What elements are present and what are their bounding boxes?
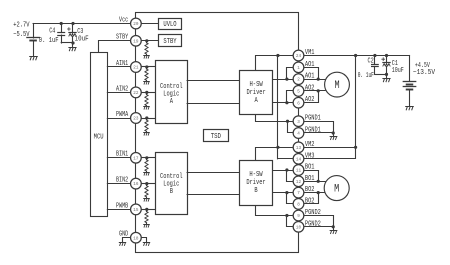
svg-text:BO2: BO2 — [305, 197, 315, 205]
svg-text:AIN2: AIN2 — [116, 85, 128, 93]
svg-text:M: M — [334, 80, 339, 92]
svg-text:BO2: BO2 — [305, 186, 315, 194]
svg-text:BIN2: BIN2 — [116, 177, 128, 185]
svg-text:+2.7V: +2.7V — [13, 22, 30, 30]
svg-text:0. 1uF: 0. 1uF — [358, 72, 374, 80]
svg-text:VM1: VM1 — [305, 49, 315, 57]
svg-text:BIN1: BIN1 — [116, 151, 129, 159]
svg-text:23: 23 — [133, 116, 138, 122]
svg-text:AO1: AO1 — [305, 73, 315, 81]
svg-text:13: 13 — [296, 145, 301, 151]
svg-text:21: 21 — [133, 65, 138, 71]
svg-text:STBY: STBY — [163, 38, 177, 46]
svg-text:BO1: BO1 — [305, 164, 315, 172]
svg-text:UVLO: UVLO — [163, 21, 177, 29]
svg-text:PGND1: PGND1 — [305, 127, 321, 135]
svg-text:9: 9 — [297, 213, 300, 219]
svg-text:16: 16 — [133, 181, 138, 187]
svg-text:STBY: STBY — [116, 34, 129, 42]
svg-text:~5.5V: ~5.5V — [13, 31, 30, 39]
svg-text:B: B — [170, 188, 174, 196]
svg-text:AO2: AO2 — [305, 84, 315, 92]
svg-text:H-SW: H-SW — [250, 81, 264, 89]
svg-text:PGND2: PGND2 — [305, 220, 321, 228]
svg-text:19: 19 — [133, 38, 138, 44]
svg-text:5: 5 — [297, 89, 300, 95]
svg-text:M: M — [334, 184, 339, 196]
svg-text:C2: C2 — [368, 58, 374, 66]
svg-text:AIN1: AIN1 — [116, 60, 129, 68]
svg-text:2: 2 — [297, 77, 300, 83]
svg-text:10uF: 10uF — [392, 67, 404, 75]
svg-text:PGND1: PGND1 — [305, 115, 321, 123]
svg-text:8: 8 — [297, 202, 300, 208]
svg-text:H-SW: H-SW — [249, 171, 263, 179]
svg-text:12: 12 — [296, 179, 301, 185]
svg-text:VM3: VM3 — [305, 152, 315, 160]
svg-text:1: 1 — [297, 65, 300, 71]
svg-text:A: A — [254, 97, 258, 105]
svg-text:20: 20 — [133, 21, 138, 27]
svg-text:PGND2: PGND2 — [305, 209, 321, 217]
svg-text:Driver: Driver — [246, 179, 265, 187]
svg-text:11: 11 — [296, 168, 301, 174]
svg-text:3: 3 — [297, 119, 300, 125]
svg-text:A: A — [170, 98, 174, 106]
svg-text:22: 22 — [133, 90, 138, 96]
svg-text:7: 7 — [297, 190, 300, 196]
svg-text:TSD: TSD — [211, 133, 222, 141]
svg-text:10: 10 — [296, 224, 301, 230]
svg-text:15: 15 — [133, 207, 138, 213]
svg-text:18: 18 — [133, 235, 138, 241]
svg-text:BO1: BO1 — [305, 175, 315, 183]
svg-text:6: 6 — [297, 100, 300, 106]
svg-text:14: 14 — [296, 156, 301, 162]
svg-text:Driver: Driver — [246, 89, 265, 97]
svg-text:MCU: MCU — [94, 134, 104, 142]
svg-text:PWMB: PWMB — [116, 202, 129, 210]
svg-text:4: 4 — [297, 131, 300, 137]
svg-text:0. 1uF: 0. 1uF — [39, 37, 59, 45]
svg-text:Vcc: Vcc — [119, 16, 128, 24]
svg-text:24: 24 — [296, 53, 301, 59]
svg-text:PWMA: PWMA — [116, 111, 129, 119]
svg-text:17: 17 — [133, 155, 138, 161]
svg-text:~13.5V: ~13.5V — [413, 69, 436, 77]
svg-text:AO2: AO2 — [305, 96, 315, 104]
svg-text:AO1: AO1 — [305, 61, 315, 69]
svg-text:VM2: VM2 — [305, 141, 315, 149]
svg-text:10uF: 10uF — [75, 35, 89, 43]
svg-text:C4: C4 — [49, 28, 55, 36]
svg-text:B: B — [254, 187, 258, 195]
svg-text:GND: GND — [119, 231, 129, 239]
